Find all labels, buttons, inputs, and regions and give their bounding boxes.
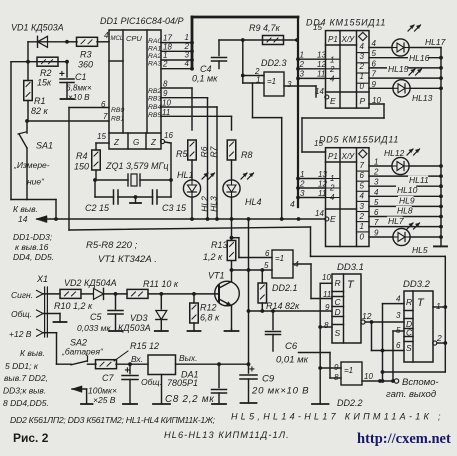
svg-text:гат. выход: гат. выход bbox=[386, 389, 436, 400]
svg-text:DD5 КМ155ИД11: DD5 КМ155ИД11 bbox=[319, 135, 399, 145]
svg-text:=1: =1 bbox=[267, 77, 276, 86]
svg-text:+: + bbox=[125, 366, 131, 377]
svg-text:„Измере-: „Измере- bbox=[13, 160, 50, 170]
svg-text:12: 12 bbox=[318, 179, 327, 188]
svg-text:2: 2 bbox=[329, 184, 335, 193]
svg-text:0,033 мк: 0,033 мк bbox=[77, 323, 111, 333]
svg-text:HL8: HL8 bbox=[397, 206, 413, 216]
svg-text:10: 10 bbox=[322, 273, 331, 282]
svg-text:HL11: HL11 bbox=[409, 175, 429, 185]
svg-text:5: 5 bbox=[360, 181, 365, 190]
svg-text:DD3;к выв.: DD3;к выв. bbox=[3, 386, 46, 396]
svg-text:HL5,HL14-HL17 КИПМ11А-1К ;: HL5,HL14-HL17 КИПМ11А-1К ; bbox=[231, 412, 444, 422]
svg-text:DD3.2: DD3.2 bbox=[403, 279, 431, 290]
svg-text:HL13: HL13 bbox=[412, 93, 433, 103]
svg-text:C5: C5 bbox=[90, 312, 102, 322]
svg-text:P1: P1 bbox=[328, 35, 338, 44]
svg-text:3: 3 bbox=[185, 51, 190, 60]
svg-text:9: 9 bbox=[163, 89, 168, 98]
svg-text:150: 150 bbox=[74, 162, 89, 172]
svg-text:Вых.: Вых. bbox=[179, 353, 198, 363]
svg-text:3: 3 bbox=[396, 311, 401, 320]
svg-text:5: 5 bbox=[396, 326, 401, 335]
svg-text:2: 2 bbox=[299, 179, 305, 188]
svg-text:RB5: RB5 bbox=[148, 112, 161, 119]
svg-text:2: 2 bbox=[299, 60, 305, 69]
svg-text:http://cxem.net: http://cxem.net bbox=[357, 431, 451, 447]
svg-text:R10 1,2 к: R10 1,2 к bbox=[54, 301, 93, 311]
svg-text:6: 6 bbox=[396, 341, 401, 350]
svg-text:DD3.1: DD3.1 bbox=[337, 262, 364, 273]
svg-text:VT1: VT1 bbox=[208, 271, 225, 281]
svg-text:HL16: HL16 bbox=[409, 53, 430, 63]
svg-text:5: 5 bbox=[264, 261, 269, 270]
svg-text:2: 2 bbox=[373, 168, 379, 177]
svg-text:Общ.: Общ. bbox=[11, 309, 32, 319]
svg-text:18: 18 bbox=[163, 42, 172, 51]
svg-text:16: 16 bbox=[164, 131, 173, 140]
svg-text:8: 8 bbox=[163, 80, 168, 89]
svg-text:выв.7 DD2,: выв.7 DD2, bbox=[4, 373, 48, 383]
svg-text:+: + bbox=[249, 365, 255, 376]
svg-text:DD2 К561ЛП2; DD3 К561ТМ2; HL1-: DD2 К561ЛП2; DD3 К561ТМ2; HL1-HL4 КИПМ11… bbox=[10, 415, 216, 425]
svg-text:8 DD4,DD5.: 8 DD4,DD5. bbox=[3, 398, 49, 408]
svg-text:R6: R6 bbox=[199, 146, 209, 157]
svg-text:ние“: ние“ bbox=[27, 177, 45, 187]
svg-text:12: 12 bbox=[317, 60, 326, 69]
svg-text:15: 15 bbox=[313, 23, 322, 32]
svg-text:Общ.: Общ. bbox=[141, 377, 162, 387]
svg-text:6: 6 bbox=[360, 171, 365, 180]
svg-text:2: 2 bbox=[436, 333, 442, 343]
svg-text:HL15: HL15 bbox=[388, 64, 409, 74]
svg-text:4: 4 bbox=[330, 75, 335, 84]
svg-text:4: 4 bbox=[330, 193, 335, 202]
svg-text:RB1: RB1 bbox=[111, 116, 124, 123]
svg-text:5: 5 bbox=[374, 198, 379, 207]
svg-text:14: 14 bbox=[18, 214, 28, 224]
svg-text:3: 3 bbox=[287, 80, 292, 89]
svg-text:DD4, DD5.: DD4, DD5. bbox=[13, 252, 54, 262]
svg-text:+12 В: +12 В bbox=[9, 329, 32, 339]
svg-text:HL7: HL7 bbox=[388, 216, 404, 226]
svg-text:7: 7 bbox=[372, 70, 377, 79]
svg-text:R1: R1 bbox=[34, 96, 46, 106]
svg-text:2: 2 bbox=[359, 212, 365, 221]
svg-text:1: 1 bbox=[330, 174, 334, 183]
svg-text:4: 4 bbox=[290, 199, 295, 209]
svg-text:3: 3 bbox=[360, 202, 365, 211]
svg-text:6,8мк×: 6,8мк× bbox=[66, 84, 92, 93]
svg-text:R15 12: R15 12 bbox=[130, 341, 159, 351]
svg-text:6: 6 bbox=[265, 249, 270, 258]
svg-text:+: + bbox=[59, 69, 65, 80]
svg-text:R2: R2 bbox=[40, 68, 52, 78]
svg-text:Рис. 2: Рис. 2 bbox=[13, 431, 49, 445]
svg-text:1: 1 bbox=[300, 170, 304, 179]
svg-text:CPU: CPU bbox=[126, 34, 142, 43]
svg-text:C6: C6 bbox=[285, 341, 298, 352]
svg-text:HL12: HL12 bbox=[384, 148, 405, 158]
svg-text:11: 11 bbox=[162, 108, 170, 117]
svg-text:0: 0 bbox=[360, 232, 365, 241]
svg-text:3: 3 bbox=[360, 52, 365, 61]
svg-text:15к: 15к bbox=[37, 78, 52, 88]
svg-text:RA3: RA3 bbox=[148, 61, 161, 68]
svg-text:2: 2 bbox=[162, 60, 168, 69]
svg-text:HL9: HL9 bbox=[399, 196, 415, 206]
svg-text:R13: R13 bbox=[211, 240, 228, 250]
svg-text:R12: R12 bbox=[200, 303, 217, 313]
svg-text:D: D bbox=[335, 307, 341, 317]
svg-text:100мк×: 100мк× bbox=[88, 386, 117, 396]
svg-text:Вх.: Вх. bbox=[131, 354, 143, 364]
svg-text:×25 В: ×25 В bbox=[93, 395, 116, 405]
svg-text:HL4: HL4 bbox=[245, 197, 262, 207]
svg-text:5: 5 bbox=[372, 49, 377, 58]
svg-text:G: G bbox=[133, 138, 139, 147]
svg-text:ZQ1 3,579 МГц: ZQ1 3,579 МГц bbox=[105, 161, 169, 171]
svg-text:R: R bbox=[406, 297, 412, 307]
svg-text:DD2.2: DD2.2 bbox=[337, 398, 363, 408]
svg-text:1: 1 bbox=[436, 301, 441, 311]
svg-text:C9: C9 bbox=[262, 374, 275, 385]
svg-text:9: 9 bbox=[334, 363, 339, 372]
svg-text:0,01 мк: 0,01 мк bbox=[276, 355, 309, 366]
svg-text:1: 1 bbox=[300, 51, 304, 60]
svg-text:X1: X1 bbox=[36, 274, 48, 284]
svg-text:к выв.16: к выв.16 bbox=[15, 242, 49, 252]
svg-text:6: 6 bbox=[374, 208, 379, 217]
svg-text:1: 1 bbox=[256, 76, 260, 85]
svg-text:R5-R8 220 ;: R5-R8 220 ; bbox=[86, 240, 138, 251]
svg-text:C: C bbox=[406, 328, 413, 338]
svg-text:6: 6 bbox=[101, 100, 106, 109]
svg-text:10: 10 bbox=[162, 99, 171, 108]
svg-text:14: 14 bbox=[315, 87, 324, 96]
svg-text:P1: P1 bbox=[328, 152, 338, 161]
svg-text:1: 1 bbox=[185, 33, 189, 42]
svg-text:C4: C4 bbox=[200, 64, 212, 74]
svg-text:HL10: HL10 bbox=[397, 185, 418, 195]
svg-text:1,2 к: 1,2 к bbox=[203, 252, 223, 262]
svg-text:RB4: RB4 bbox=[148, 104, 161, 111]
svg-text:7: 7 bbox=[374, 218, 379, 227]
svg-text:7805Р1: 7805Р1 bbox=[167, 378, 198, 388]
svg-text:S: S bbox=[406, 343, 412, 353]
svg-text:C7: C7 bbox=[102, 373, 114, 383]
svg-text:1: 1 bbox=[360, 222, 364, 231]
svg-text:R: R bbox=[335, 278, 341, 288]
svg-text:1: 1 bbox=[374, 158, 378, 167]
svg-text:VD2 КД504А: VD2 КД504А bbox=[64, 278, 117, 288]
svg-text:15: 15 bbox=[97, 132, 106, 141]
svg-text:E: E bbox=[330, 96, 336, 106]
svg-text:4: 4 bbox=[372, 39, 377, 48]
svg-text:=1: =1 bbox=[344, 366, 353, 375]
svg-text:9: 9 bbox=[325, 303, 330, 312]
svg-text:VD3: VD3 bbox=[130, 313, 148, 323]
svg-text:8: 8 bbox=[334, 373, 339, 382]
svg-text:DD2.1: DD2.1 bbox=[272, 283, 298, 293]
svg-text:7: 7 bbox=[360, 161, 365, 170]
svg-text:20 мк×10 В: 20 мк×10 В bbox=[251, 386, 309, 397]
svg-text:КД503А: КД503А bbox=[118, 323, 151, 333]
svg-text:2: 2 bbox=[359, 62, 365, 71]
svg-text:К выв.: К выв. bbox=[20, 348, 45, 358]
svg-text:0: 0 bbox=[360, 82, 365, 91]
svg-text:2: 2 bbox=[329, 65, 335, 74]
svg-text:VD1 КД503А: VD1 КД503А bbox=[11, 23, 64, 33]
svg-text:6,8 к: 6,8 к bbox=[200, 313, 220, 323]
svg-text:5 DD1; к: 5 DD1; к bbox=[5, 361, 39, 371]
svg-text:4: 4 bbox=[294, 259, 299, 269]
svg-text:C8 2,2 мк: C8 2,2 мк bbox=[165, 394, 215, 405]
svg-text:9: 9 bbox=[374, 229, 379, 238]
svg-text:C2 15: C2 15 bbox=[85, 203, 110, 213]
svg-text:R14 82к: R14 82к bbox=[266, 301, 300, 311]
svg-text:6: 6 bbox=[372, 59, 377, 68]
svg-text:12: 12 bbox=[362, 311, 372, 321]
svg-text:15: 15 bbox=[314, 139, 323, 148]
svg-text:К выв.: К выв. bbox=[13, 204, 38, 214]
svg-text:HL17: HL17 bbox=[425, 37, 446, 47]
svg-text:MCL: MCL bbox=[111, 36, 124, 42]
svg-text:11: 11 bbox=[323, 290, 331, 299]
svg-text:4: 4 bbox=[360, 192, 365, 201]
svg-text:3: 3 bbox=[374, 178, 379, 187]
svg-text:2: 2 bbox=[184, 42, 190, 51]
svg-text:S: S bbox=[335, 328, 341, 338]
svg-text:X/У: X/У bbox=[341, 152, 356, 161]
svg-text:C3 15: C3 15 bbox=[162, 203, 187, 213]
svg-text:R11 10 к: R11 10 к bbox=[143, 279, 179, 289]
svg-text:E: E bbox=[330, 214, 336, 224]
svg-text:SA1: SA1 bbox=[36, 141, 53, 151]
svg-text:4: 4 bbox=[185, 59, 190, 68]
svg-text:VT1 КТ342А .: VT1 КТ342А . bbox=[98, 254, 157, 265]
svg-text:0,1 мк: 0,1 мк bbox=[192, 74, 218, 84]
svg-text:DD1 PIC16C84-04/P: DD1 PIC16C84-04/P bbox=[100, 16, 184, 26]
svg-text:RB3: RB3 bbox=[148, 96, 161, 103]
svg-text:9: 9 bbox=[372, 80, 377, 89]
svg-text:R7: R7 bbox=[209, 146, 219, 157]
svg-text:R9 4,7к: R9 4,7к bbox=[249, 23, 281, 33]
svg-text:P: P bbox=[360, 96, 366, 106]
svg-text:17: 17 bbox=[163, 34, 172, 43]
svg-text:360: 360 bbox=[78, 60, 93, 70]
svg-text:=1: =1 bbox=[275, 254, 284, 263]
svg-text:4: 4 bbox=[104, 31, 109, 40]
svg-text:RA2: RA2 bbox=[148, 53, 161, 60]
svg-text:RA1: RA1 bbox=[148, 46, 161, 53]
svg-text:Сигн.: Сигн. bbox=[11, 290, 33, 300]
svg-text:4: 4 bbox=[396, 295, 401, 304]
svg-text:1: 1 bbox=[360, 72, 364, 81]
svg-text:4: 4 bbox=[374, 188, 379, 197]
svg-text:10: 10 bbox=[364, 372, 373, 381]
svg-text:3: 3 bbox=[300, 70, 305, 79]
svg-text:C1: C1 bbox=[75, 72, 87, 82]
svg-text:×10 В: ×10 В bbox=[68, 93, 90, 102]
svg-text:3: 3 bbox=[300, 189, 305, 198]
svg-text:10: 10 bbox=[372, 96, 381, 105]
svg-text:1: 1 bbox=[163, 51, 167, 60]
svg-text:HL1: HL1 bbox=[177, 170, 194, 180]
svg-text:11: 11 bbox=[318, 189, 326, 198]
svg-text:82 к: 82 к bbox=[31, 106, 49, 116]
svg-text:11: 11 bbox=[317, 70, 325, 79]
svg-text:13: 13 bbox=[317, 51, 326, 60]
svg-text:DD2.3: DD2.3 bbox=[261, 58, 287, 68]
svg-text:RA0: RA0 bbox=[148, 38, 161, 45]
svg-text:R8: R8 bbox=[241, 150, 253, 160]
svg-text:HL6-HL13 КИПМ11Д-1Л.: HL6-HL13 КИПМ11Д-1Л. bbox=[164, 430, 290, 440]
svg-text:8: 8 bbox=[324, 321, 329, 330]
svg-text:4: 4 bbox=[360, 42, 365, 51]
svg-text:HL3: HL3 bbox=[209, 196, 219, 212]
svg-text:X/У: X/У bbox=[341, 35, 356, 44]
svg-text:RB2: RB2 bbox=[148, 88, 161, 95]
svg-text:„батарея“: „батарея“ bbox=[61, 347, 104, 357]
svg-text:C: C bbox=[335, 297, 342, 307]
svg-text:7: 7 bbox=[103, 112, 108, 121]
svg-text:13: 13 bbox=[318, 170, 327, 179]
svg-text:1: 1 bbox=[330, 56, 334, 65]
svg-text:DD1-DD3;: DD1-DD3; bbox=[13, 232, 53, 242]
svg-text:R4: R4 bbox=[76, 151, 88, 161]
svg-text:HL5: HL5 bbox=[412, 245, 428, 255]
svg-text:R3: R3 bbox=[80, 50, 92, 60]
svg-text:RB0: RB0 bbox=[111, 107, 124, 114]
svg-text:14: 14 bbox=[315, 209, 324, 218]
svg-text:Вспомо-: Вспомо- bbox=[402, 377, 439, 388]
svg-text:R5: R5 bbox=[176, 149, 188, 159]
